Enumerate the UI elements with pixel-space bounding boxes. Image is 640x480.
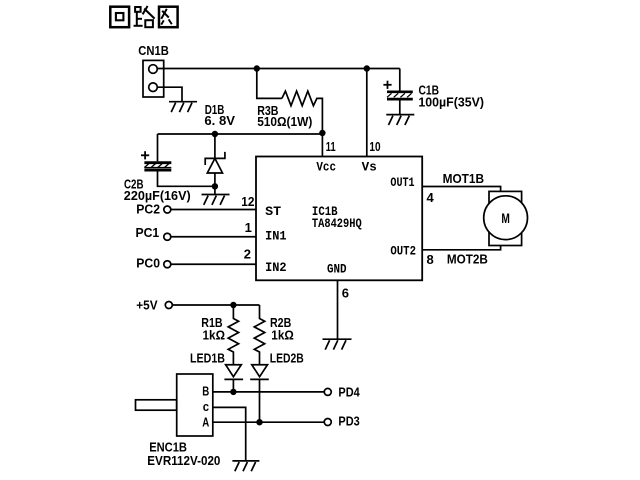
svg-text:CN1B: CN1B bbox=[138, 43, 169, 58]
svg-text:LED2B: LED2B bbox=[270, 350, 304, 365]
svg-text:M: M bbox=[501, 211, 510, 226]
svg-text:IN1: IN1 bbox=[265, 229, 287, 243]
svg-text:6: 6 bbox=[342, 286, 349, 301]
svg-text:IN2: IN2 bbox=[265, 261, 287, 275]
svg-text:EVR112V-020: EVR112V-020 bbox=[147, 453, 220, 468]
node junction J1 bbox=[254, 65, 260, 71]
svg-text:PC0: PC0 bbox=[136, 256, 160, 271]
terminal PD4 bbox=[324, 384, 360, 399]
connector CN1B bbox=[138, 43, 169, 97]
svg-text:GND: GND bbox=[327, 263, 347, 277]
wire CN1B pin2 to ground bbox=[157, 87, 182, 102]
svg-text:1kΩ: 1kΩ bbox=[203, 327, 226, 342]
wire PC1 to IN1 pin1 bbox=[171, 236, 256, 238]
wire PC2 to ST pin12 bbox=[171, 209, 256, 211]
svg-text:PC1: PC1 bbox=[136, 225, 160, 240]
svg-text:12: 12 bbox=[241, 194, 254, 209]
wire B to PD4 bbox=[213, 391, 324, 393]
wire A to PD3 bbox=[213, 421, 324, 423]
wire +5V rail bbox=[172, 304, 259, 306]
terminal +5V bbox=[136, 298, 172, 313]
svg-text:10: 10 bbox=[369, 139, 380, 154]
encoder ENC1B bbox=[136, 374, 221, 468]
ground C1B bbox=[386, 115, 414, 125]
pin 10 Vs lead bbox=[366, 69, 368, 157]
zener diode D1B bbox=[204, 102, 235, 195]
svg-text:100µF(35V): 100µF(35V) bbox=[418, 94, 484, 109]
wire OUT1 to motor bbox=[422, 187, 500, 192]
resistor R2B bbox=[254, 305, 293, 365]
svg-text:PD3: PD3 bbox=[338, 414, 359, 429]
svg-text:ST: ST bbox=[265, 205, 282, 219]
svg-text:2: 2 bbox=[244, 247, 251, 262]
terminal PC2 bbox=[136, 202, 171, 217]
terminal PD3 bbox=[324, 414, 359, 429]
svg-text:LED1B: LED1B bbox=[190, 350, 225, 365]
svg-text:4: 4 bbox=[427, 190, 435, 205]
IC U1 TA8429HQ box bbox=[256, 157, 422, 281]
svg-text:6. 8V: 6. 8V bbox=[204, 113, 235, 128]
svg-text:PC2: PC2 bbox=[136, 202, 160, 217]
wire c to ground bbox=[213, 407, 246, 461]
capacitor C1B bbox=[383, 69, 484, 115]
svg-text:510Ω(1W): 510Ω(1W) bbox=[257, 114, 312, 129]
ground CN1B bbox=[169, 102, 197, 112]
pin 6 GND lead bbox=[337, 280, 339, 339]
svg-text:8: 8 bbox=[427, 252, 434, 267]
wire top rail bbox=[157, 68, 399, 70]
node junction J2 bbox=[364, 65, 370, 71]
svg-text:Vcc: Vcc bbox=[316, 161, 336, 175]
resistor R1B bbox=[201, 305, 238, 365]
ground ENC1B bbox=[232, 461, 259, 471]
node junction J7 bbox=[230, 389, 236, 395]
node junction J8 bbox=[256, 419, 262, 425]
node junction J5 (D1B anode) bbox=[212, 183, 218, 189]
motor M1 bbox=[484, 191, 528, 245]
svg-text:A: A bbox=[202, 415, 209, 430]
node junction J4 (D1B top) bbox=[212, 131, 218, 137]
LED LED1B bbox=[190, 350, 243, 392]
wire Vcc rail bbox=[158, 133, 323, 135]
svg-text:MOT2B: MOT2B bbox=[447, 252, 488, 267]
svg-text:1kΩ: 1kΩ bbox=[271, 327, 294, 342]
node junction J6 bbox=[230, 302, 236, 308]
title 回路図 bbox=[110, 6, 177, 27]
pin 11 Vcc lead bbox=[321, 133, 323, 157]
wire PC0 to IN2 pin2 bbox=[171, 263, 256, 265]
svg-text:TA8429HQ: TA8429HQ bbox=[312, 217, 362, 231]
svg-text:Vs: Vs bbox=[362, 161, 377, 175]
resistor R3B bbox=[257, 69, 323, 134]
svg-text:11: 11 bbox=[326, 139, 336, 154]
svg-text:B: B bbox=[202, 384, 209, 399]
svg-text:MOT1B: MOT1B bbox=[443, 171, 484, 186]
terminal PC0 bbox=[136, 256, 171, 271]
capacitor C2B bbox=[124, 134, 215, 203]
node junction J3 (pin11) bbox=[319, 130, 325, 136]
wire OUT2 to motor bbox=[422, 245, 500, 249]
svg-text:1: 1 bbox=[245, 220, 252, 235]
ground IC pin6 bbox=[323, 339, 352, 349]
terminal PC1 bbox=[136, 225, 171, 240]
ground D1B bbox=[202, 195, 230, 205]
svg-text:+5V: +5V bbox=[136, 298, 158, 313]
svg-text:OUT1: OUT1 bbox=[390, 176, 414, 190]
LED LED2B bbox=[250, 350, 304, 422]
svg-text:c: c bbox=[203, 399, 209, 414]
svg-text:OUT2: OUT2 bbox=[390, 244, 416, 258]
svg-text:PD4: PD4 bbox=[338, 384, 360, 399]
